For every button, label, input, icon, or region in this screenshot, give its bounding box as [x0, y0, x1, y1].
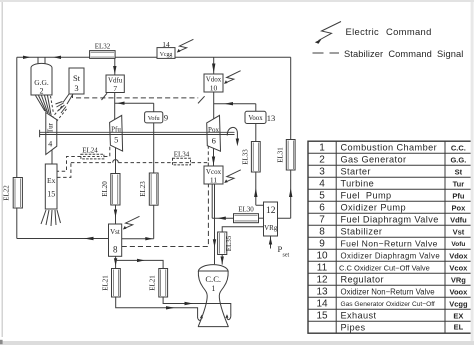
svg-text:VRg: VRg	[264, 224, 278, 232]
svg-text:3: 3	[319, 167, 325, 178]
svg-text:2: 2	[319, 155, 325, 166]
svg-text:C.C Oxidizer Cut−Off Valve: C.C Oxidizer Cut−Off Valve	[339, 264, 430, 273]
svg-text:Starter: Starter	[341, 167, 371, 177]
wire top rail	[17, 56, 291, 58]
oxidizer diaphragm valve Vdox 10	[204, 74, 223, 93]
svg-text:Pox: Pox	[208, 126, 219, 134]
electric command bolt at Vdox	[224, 71, 241, 84]
exhaust spray	[41, 210, 61, 226]
svg-text:C.C.: C.C.	[451, 144, 466, 153]
svg-text:Oxidizer Pump: Oxidizer Pump	[341, 203, 406, 213]
svg-text:Ex: Ex	[47, 176, 56, 185]
svg-text:EX: EX	[453, 312, 463, 321]
svg-text:St: St	[455, 168, 463, 177]
regulator VRg 12	[264, 202, 278, 236]
wire Voox branch to oxidizer line with arrow	[214, 102, 256, 105]
svg-text:7: 7	[319, 215, 325, 226]
legend stabilizer dashed sample	[313, 52, 340, 54]
wire regulator to EL35	[222, 227, 263, 232]
svg-text:Vcgg: Vcgg	[449, 300, 468, 309]
exhaust Ex 15	[45, 164, 57, 209]
stabilizer dashed command Vst to Vcox	[122, 184, 209, 247]
wire dashed EL24 to exhaust	[57, 157, 81, 172]
svg-text:EL31: EL31	[276, 147, 284, 163]
svg-text:EL21: EL21	[149, 275, 157, 291]
wire EL23 down to Vst right line	[153, 205, 155, 239]
svg-text:EL35: EL35	[225, 235, 233, 251]
combustion chamber C.C. 1	[198, 265, 229, 327]
svg-text:Oxidizer Non−Return Valve: Oxidizer Non−Return Valve	[341, 288, 435, 297]
shaft rotation arrow	[227, 127, 239, 146]
shaft connecting turbine and pumps	[40, 130, 235, 137]
svg-text:5: 5	[114, 135, 118, 145]
C.C oxidizer cut-off valve Vcox 11	[204, 166, 223, 185]
wire Vdox to Pox	[213, 92, 215, 119]
gas generator G.G. 2	[31, 57, 52, 95]
svg-text:Vdox: Vdox	[206, 76, 222, 84]
gas generator oxidizer cut-off valve Vcgg 14	[157, 40, 175, 58]
svg-text:EL: EL	[454, 323, 464, 332]
wire EL35 to combustion chamber with arrow	[221, 255, 224, 265]
stabilizer Vst 8	[109, 224, 122, 256]
svg-text:Vdox: Vdox	[449, 252, 468, 261]
svg-text:Turbine: Turbine	[341, 179, 375, 189]
svg-text:8: 8	[113, 245, 118, 255]
pipe EL33	[241, 142, 260, 173]
svg-text:EL33: EL33	[241, 149, 249, 165]
stabilizer dashed command line from starter to valves	[76, 93, 205, 103]
wire EL31 to regulator with up arrow	[278, 170, 293, 218]
svg-text:12: 12	[316, 275, 328, 286]
wire rail right corner down through EL31	[290, 57, 292, 139]
svg-text:7: 7	[113, 84, 117, 93]
svg-text:EL23: EL23	[139, 181, 147, 197]
svg-text:Vdfu: Vdfu	[450, 216, 467, 225]
svg-text:EL34: EL34	[174, 151, 190, 159]
svg-text:Fuel Diaphragm Valve: Fuel Diaphragm Valve	[341, 215, 439, 225]
wire Vofu down to EL23	[153, 123, 155, 173]
fuel non-return valve Vofu 9	[145, 103, 169, 123]
wire rail arrow left	[53, 56, 61, 59]
svg-text:Tur: Tur	[47, 122, 55, 133]
pipe EL23	[139, 173, 158, 205]
svg-text:8: 8	[319, 227, 325, 238]
electric command bolt at Vcox	[224, 170, 241, 183]
svg-text:G.G.: G.G.	[450, 156, 466, 165]
electric command bolt at Vst	[123, 216, 140, 229]
svg-text:EL24: EL24	[82, 147, 98, 155]
svg-text:14: 14	[162, 40, 170, 49]
svg-text:11: 11	[317, 263, 328, 274]
gas generator exhaust spray into turbine	[36, 96, 54, 116]
wire Pfu to EL20	[115, 148, 117, 174]
svg-text:Tur: Tur	[453, 180, 465, 189]
starter spray	[48, 102, 67, 125]
turbine label	[47, 122, 55, 148]
wire Vst down to EL21 left with arrow	[114, 256, 117, 268]
svg-text:Voox: Voox	[248, 115, 263, 122]
legend electric command text	[346, 26, 432, 37]
svg-text:Exhaust: Exhaust	[341, 311, 377, 321]
wire EL33 to regulator with up arrow	[254, 172, 263, 205]
svg-text:EL21: EL21	[101, 275, 109, 291]
svg-text:Vst: Vst	[453, 228, 465, 237]
svg-text:EL20: EL20	[101, 181, 109, 197]
svg-text:Pipes: Pipes	[341, 323, 366, 333]
svg-text:Electric Command: Electric Command	[346, 26, 432, 37]
svg-text:12: 12	[266, 206, 276, 216]
svg-text:Stabilizer: Stabilizer	[341, 227, 383, 237]
svg-text:Vcgg: Vcgg	[160, 52, 173, 58]
svg-text:Pfu: Pfu	[452, 192, 465, 201]
oxidizer pump Pox 6	[207, 115, 221, 151]
pipe EL30	[234, 206, 264, 223]
wire rail to Vdox with arrow	[212, 57, 215, 74]
pipe EL32	[90, 43, 116, 59]
svg-text:14: 14	[316, 299, 328, 310]
fuel diaphragm valve Vdfu 7	[106, 75, 124, 93]
wire Vdfu to Pfu	[114, 93, 116, 120]
svg-text:1: 1	[319, 143, 325, 154]
wire main oxidizer feed Vcox to combustion chamber	[213, 184, 216, 264]
svg-text:15: 15	[47, 190, 55, 199]
svg-text:Voox: Voox	[450, 288, 469, 297]
svg-text:Vcox: Vcox	[449, 264, 468, 273]
legend stabilizer command text	[344, 49, 463, 59]
svg-text:Combustion Chamber: Combustion Chamber	[341, 143, 438, 153]
svg-text:St: St	[73, 73, 81, 83]
svg-text:set: set	[283, 253, 290, 259]
svg-text:Vofu: Vofu	[451, 241, 465, 248]
svg-text:VRg: VRg	[451, 276, 466, 285]
legend electric command bolt	[315, 22, 341, 44]
pipe EL24 (dashed drain pipe)	[81, 147, 104, 159]
wire line into Vst from left	[17, 237, 109, 240]
fuel pump label	[111, 126, 121, 145]
svg-text:13: 13	[267, 113, 276, 123]
pipe EL35	[218, 232, 233, 255]
electric command bolt at Vcgg	[177, 39, 194, 52]
wire EL21 left to nozzle cooling with arrow	[116, 297, 203, 320]
fuel pump Pfu 5	[110, 115, 123, 151]
svg-text:10: 10	[210, 84, 218, 93]
starter St 3	[63, 68, 84, 104]
svg-text:6: 6	[319, 203, 325, 214]
svg-text:15: 15	[316, 311, 328, 322]
svg-text:3: 3	[74, 83, 78, 93]
wire rail to Vdfu with arrow	[113, 58, 116, 75]
wire EL20 to Vst with arrow	[114, 205, 117, 224]
svg-text:EL32: EL32	[95, 43, 111, 51]
wire EL21 right to nozzle cooling with arrow	[163, 297, 231, 320]
wire rail arrow right	[23, 56, 31, 59]
svg-text:Pfu: Pfu	[111, 126, 121, 134]
wire left vertical from rail to stabilizer	[16, 57, 18, 238]
wire Vcox pressure tap to EL30	[212, 184, 233, 220]
svg-text:Stabilizer Command Signal: Stabilizer Command Signal	[344, 49, 463, 59]
svg-text:6: 6	[212, 136, 216, 146]
pipe EL21 right	[149, 269, 168, 298]
wire Vst branch to EL21 right with arrow	[116, 259, 164, 269]
pipe EL20	[101, 174, 120, 206]
svg-text:Pox: Pox	[452, 204, 467, 213]
svg-text:Fuel Non−Return Valve: Fuel Non−Return Valve	[341, 239, 438, 249]
svg-text:Vofu: Vofu	[148, 115, 160, 122]
svg-text:9: 9	[319, 239, 325, 250]
pipe EL31	[276, 140, 295, 171]
pipe EL22	[2, 178, 22, 209]
node P set	[269, 236, 290, 258]
legend table	[308, 141, 472, 333]
svg-text:EL30: EL30	[238, 206, 254, 214]
wire Voox down to EL33	[255, 124, 257, 142]
pipe EL34 (dashed)	[173, 151, 191, 165]
pipe EL21 left	[101, 269, 120, 298]
oxidizer pump label	[208, 126, 219, 146]
svg-text:EL22: EL22	[2, 185, 10, 201]
wire dashed EL24 to Pfu	[104, 146, 110, 156]
svg-text:Gas Generator: Gas Generator	[341, 155, 407, 165]
svg-text:Fuel Pump: Fuel Pump	[341, 191, 392, 201]
svg-text:Oxidizer Diaphragm Valve: Oxidizer Diaphragm Valve	[341, 252, 441, 261]
oxidizer non-return valve Voox 13	[245, 104, 275, 124]
svg-text:C.C.: C.C.	[205, 274, 221, 284]
svg-text:Regulator: Regulator	[341, 275, 384, 285]
wire Vofu branch to fuel line with arrow	[115, 102, 154, 105]
turbine Tur 4	[46, 113, 57, 155]
wire Pox to Vcox with arrow	[212, 148, 215, 165]
svg-text:4: 4	[319, 179, 325, 190]
svg-text:11: 11	[210, 176, 217, 185]
svg-text:9: 9	[164, 113, 168, 123]
svg-text:2: 2	[40, 87, 44, 96]
svg-text:10: 10	[316, 251, 328, 262]
wire turbine to exhaust	[51, 150, 53, 164]
svg-text:13: 13	[316, 287, 328, 298]
wire Vst to EL23 riser with arrow	[122, 237, 154, 240]
wire dashed drain line exhaust to Vcox via EL34	[57, 146, 208, 177]
svg-text:Gas Generator Oxidizer Cut−O: Gas Generator Oxidizer Cut−Off	[341, 301, 435, 308]
svg-text:Vst: Vst	[110, 228, 120, 236]
svg-text:5: 5	[319, 191, 325, 202]
svg-text:1: 1	[211, 284, 215, 293]
svg-text:4: 4	[48, 140, 52, 149]
